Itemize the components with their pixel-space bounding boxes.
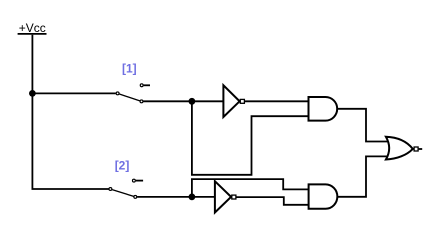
switch SW2 upper throw stub	[136, 180, 143, 182]
switch SW2 blade	[112, 190, 134, 197]
wire NOR output stub	[419, 148, 423, 150]
switch SW2 lower throw contact	[134, 195, 137, 198]
wire AND2 output to NOR bottom input	[337, 156, 389, 196]
inverter U2 bubble	[232, 195, 236, 199]
nor-gate U5 bubble	[414, 147, 418, 151]
and-gate U4	[309, 184, 338, 208]
wire U1 output to AND1 top input	[245, 100, 309, 102]
node junction J3	[189, 194, 196, 201]
inverter U2 triangle	[215, 181, 231, 212]
wire SW1 to junction J2	[143, 100, 192, 102]
inverter U1 triangle	[223, 85, 239, 117]
nor-gate U5 body	[386, 137, 413, 160]
inverter U1 bubble	[240, 99, 244, 103]
wire J1 to switch1 pole	[32, 92, 115, 94]
power rail bar	[18, 33, 47, 35]
wire J3 to inverter U2 input	[192, 196, 215, 198]
switch SW2 pole contact	[109, 188, 112, 191]
wire Vcc rail vertical	[32, 35, 109, 189]
wire U2 output to AND2 bottom input	[236, 197, 308, 205]
switch SW1 upper throw stub	[144, 84, 150, 86]
switch SW1 blade	[119, 94, 140, 101]
svg-text:+Vcc: +Vcc	[19, 21, 46, 35]
wire J3 up-right-down to AND2 top input	[192, 179, 309, 197]
switch SW1 upper throw contact	[140, 84, 143, 87]
switch SW2 upper throw contact	[132, 179, 135, 182]
wire AND1 output to NOR top input	[337, 109, 389, 142]
node junction J1	[29, 90, 36, 97]
wire J2 to inverter U1 input	[192, 100, 223, 102]
node junction J2	[189, 98, 196, 105]
wire SW2 to junction J3	[137, 196, 192, 198]
wire J2 down-right-up to AND1 bottom input	[192, 101, 309, 175]
switch SW1 pole contact	[116, 92, 119, 95]
svg-text:[1]: [1]	[122, 61, 137, 75]
switch SW1 lower throw contact	[140, 100, 143, 103]
and-gate U3	[309, 97, 338, 121]
svg-text:[2]: [2]	[115, 159, 130, 173]
